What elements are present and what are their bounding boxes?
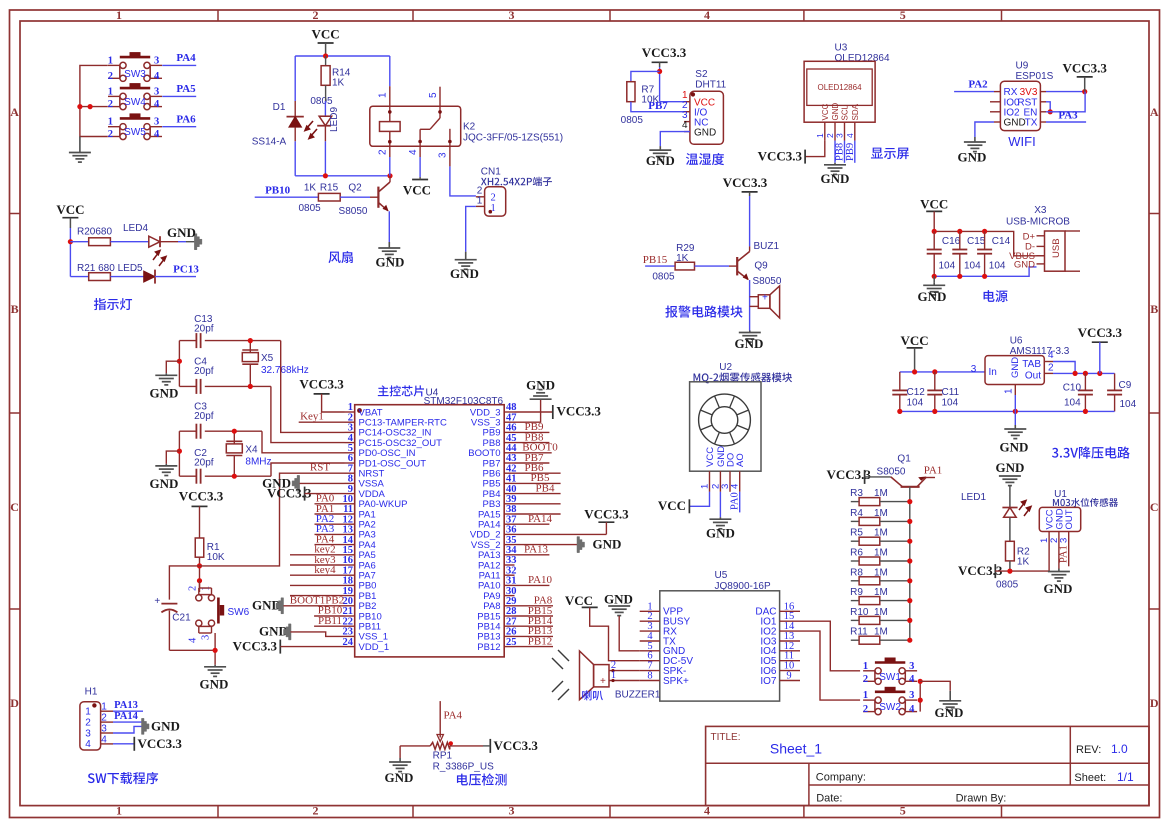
svg-text:R20680: R20680 [77, 227, 112, 238]
U5 right pins [780, 610, 800, 612]
ground arrow H1 [142, 718, 150, 734]
wire R15 to Q2 base [340, 196, 370, 198]
wire pin26 PB13 [515, 635, 554, 637]
transistor Q9 S8050 [736, 257, 738, 275]
ground SW1 SW2 [949, 691, 951, 701]
svg-text:1/1: 1/1 [1117, 770, 1134, 784]
wire PA2 to RX [954, 91, 994, 93]
svg-text:U5: U5 [715, 570, 728, 581]
svg-text:GND: GND [918, 289, 947, 304]
wire VCC3.3 to Q1 base [865, 476, 891, 478]
resistor R29 1K [675, 262, 694, 270]
svg-text:1M: 1M [874, 627, 888, 638]
svg-text:VCC3.3: VCC3.3 [233, 638, 278, 653]
svg-text:OLED12864: OLED12864 [817, 83, 862, 92]
svg-text:104: 104 [939, 260, 956, 271]
ground DHT11 [659, 146, 661, 150]
wire GND to pin5 [619, 616, 640, 651]
svg-text:2: 2 [108, 99, 113, 110]
svg-text:PB4: PB4 [536, 482, 555, 494]
svg-text:1M: 1M [874, 488, 888, 499]
svg-text:4: 4 [845, 133, 855, 138]
resistor R20 680 [89, 238, 111, 246]
svg-text:R11: R11 [850, 627, 868, 638]
svg-text:REV:: REV: [1076, 744, 1101, 756]
wire X4 top to MCU pin5 [262, 431, 345, 453]
svg-text:OLED12864: OLED12864 [835, 53, 890, 64]
switch SW1 [875, 668, 881, 674]
resistor R1 10K [195, 538, 204, 557]
svg-text:2: 2 [378, 149, 389, 155]
resistor R10 1M [851, 619, 859, 621]
speaker terminals [609, 670, 640, 672]
wire Q9 collector up [749, 246, 751, 251]
svg-text:20pf: 20pf [194, 324, 214, 335]
svg-text:TITLE:: TITLE: [711, 732, 741, 743]
svg-text:1: 1 [863, 661, 868, 672]
svg-text:U2: U2 [719, 362, 732, 373]
svg-text:R3: R3 [850, 488, 863, 499]
wire SW4 pin2 to rail [80, 106, 108, 108]
switch SW4 [120, 93, 126, 99]
wire PA1 pin11 [315, 513, 345, 515]
svg-text:20pf: 20pf [194, 411, 214, 422]
label SW download chinese [88, 772, 158, 784]
svg-text:GND: GND [821, 171, 850, 186]
ground X5 [166, 361, 179, 373]
wire pin27 PB14 [515, 625, 554, 627]
label display chinese [871, 148, 909, 160]
LED LED5 [144, 271, 155, 282]
svg-text:R8: R8 [850, 567, 863, 578]
sound wave lines [552, 650, 569, 700]
svg-text:3: 3 [509, 8, 515, 22]
svg-text:2: 2 [1048, 362, 1054, 373]
svg-text:In: In [989, 367, 997, 378]
wire VDDA pin9 [305, 493, 345, 495]
relay pin4 stub [419, 146, 421, 157]
svg-text:4: 4 [909, 704, 915, 715]
svg-text:Sheet_1: Sheet_1 [770, 741, 822, 757]
svg-text:AO: AO [735, 453, 746, 467]
wire pin29 PA8 [515, 605, 554, 607]
svg-text:5: 5 [428, 92, 439, 98]
wire PB1 pin19 [290, 595, 345, 597]
power VCC3.3 pin48 [552, 405, 554, 419]
svg-text:4: 4 [682, 120, 688, 131]
svg-text:104: 104 [964, 260, 981, 271]
wire pin46 PB9 [515, 431, 550, 433]
MCU right pins [504, 411, 514, 413]
svg-text:VCC3.3: VCC3.3 [584, 506, 629, 521]
speaker BUZ1 symbol [758, 295, 770, 309]
svg-text:SW2: SW2 [879, 702, 901, 713]
wire pin31 PA10 [515, 584, 550, 586]
svg-text:4: 4 [704, 8, 710, 22]
svg-text:4: 4 [85, 739, 91, 750]
svg-text:GND: GND [150, 476, 179, 491]
svg-text:GND: GND [935, 705, 964, 720]
svg-text:Q9: Q9 [754, 260, 768, 271]
ground mq2 [719, 517, 721, 519]
wire RST to EN [1046, 102, 1050, 112]
capacitor C12 104 [899, 372, 901, 391]
wire junction to R7 top [631, 71, 660, 81]
wire PB0 pin18 [290, 584, 345, 586]
svg-text:GND: GND [151, 718, 180, 733]
ground arrow VSS_2 [577, 537, 585, 553]
ground U1 [1058, 569, 1060, 572]
svg-text:S8050: S8050 [753, 276, 782, 287]
svg-text:4: 4 [1048, 350, 1054, 361]
switch SW5 [120, 124, 126, 130]
wire BOOT1PB2 pin20 [284, 605, 345, 607]
svg-text:VDD_1: VDD_1 [359, 642, 390, 653]
svg-text:GND: GND [646, 153, 675, 168]
wire VCC3.3 to Q9 collector [749, 196, 751, 246]
svg-text:1: 1 [611, 670, 616, 681]
wire VCC down [69, 228, 71, 277]
wire R7 bottom to pin2 [631, 102, 684, 112]
svg-text:1M: 1M [874, 548, 888, 559]
wire TAB to Out [1044, 361, 1053, 363]
svg-text:9: 9 [786, 671, 791, 682]
wire fan bottom rail [295, 175, 390, 177]
label voltage detect chinese [457, 773, 507, 785]
label speaker chinese [582, 690, 603, 700]
U6 GND pin stub [1014, 385, 1016, 396]
wire IO1 to SW1 [800, 621, 860, 671]
svg-text:X3: X3 [1034, 205, 1047, 216]
capacitor C9 104 [1114, 373, 1116, 390]
wire SW6 bottom to GND [199, 632, 212, 634]
svg-text:S8050: S8050 [339, 206, 368, 217]
wire Q9 emitter to speaker [749, 280, 751, 331]
wire VSSA pin8 [300, 482, 345, 484]
svg-text:3: 3 [154, 117, 159, 128]
svg-text:GND: GND [450, 266, 479, 281]
ESP01S pin stubs [994, 91, 1000, 93]
wire D1 to bottom rail [294, 141, 296, 176]
ground OLED [834, 163, 836, 165]
svg-text:OUT: OUT [1064, 509, 1075, 529]
svg-text:1M: 1M [874, 508, 888, 519]
wire R29 to Q9 base [695, 265, 730, 267]
wire X4 left rail [178, 431, 180, 476]
wire MQ2 pin1 to VCC [689, 492, 709, 507]
wire R20 to LED4 [110, 241, 148, 243]
svg-text:GND: GND [385, 770, 414, 785]
wire key4 pin17 [290, 574, 345, 576]
svg-text:VCC3.3: VCC3.3 [758, 148, 803, 163]
LED LED9 [319, 115, 332, 117]
junction on rail [77, 104, 82, 109]
label indicator chinese [94, 298, 132, 310]
svg-text:VCC3.3: VCC3.3 [557, 404, 602, 419]
svg-text:2: 2 [188, 586, 199, 591]
svg-text:H1: H1 [85, 687, 98, 698]
wire PA2 pin12 [315, 523, 345, 525]
resistor R9 1M [851, 600, 859, 602]
svg-text:VCC3.3: VCC3.3 [1062, 61, 1107, 76]
svg-text:LED4: LED4 [123, 223, 148, 234]
wire DHT11 pin4 to GND [660, 132, 690, 147]
wire pin37 PA14 [515, 523, 550, 525]
svg-text:R10: R10 [850, 607, 869, 618]
wire LED5 to PC13 [155, 276, 196, 278]
svg-text:2: 2 [101, 713, 107, 724]
ground fan Q2 [388, 242, 390, 248]
svg-text:VCC: VCC [312, 27, 340, 42]
wire X5 bottom to MCU pin4 [271, 386, 345, 442]
svg-text:1M: 1M [874, 528, 888, 539]
wire RST net to MCU pin7 [200, 473, 345, 566]
wire Q2 emitter to GND [388, 211, 390, 242]
MCU U4 body [355, 405, 505, 657]
svg-text:GND: GND [1014, 259, 1035, 270]
wire OLED pin2 to GND [834, 141, 836, 163]
svg-text:PA3: PA3 [1058, 109, 1078, 121]
svg-text:Key1: Key1 [300, 410, 324, 422]
U5 left pins [640, 610, 660, 612]
ground RP1 [399, 758, 401, 762]
wire pin39 stub [515, 503, 561, 505]
resistor R6 1M [851, 560, 859, 562]
wire PA4 pin14 [315, 544, 345, 546]
svg-text:SW1: SW1 [879, 672, 901, 683]
svg-text:+: + [762, 293, 768, 304]
svg-text:D: D [10, 696, 19, 710]
svg-text:GND: GND [200, 677, 229, 692]
svg-text:A: A [10, 105, 19, 119]
svg-text:Drawn By:: Drawn By: [956, 793, 1007, 805]
svg-text:PA0: PA0 [730, 492, 741, 510]
svg-text:1: 1 [815, 133, 825, 138]
svg-text:3: 3 [971, 364, 977, 375]
svg-text:VCC: VCC [56, 202, 84, 217]
svg-text:PA10: PA10 [528, 574, 553, 586]
wire pin40 PB4 [515, 493, 561, 495]
wire pin45 PB8 [515, 442, 550, 444]
wire OLED pin3 net PB8 [844, 141, 846, 163]
svg-text:4: 4 [730, 484, 741, 489]
wire GND wifi [975, 122, 994, 137]
wire regulator input rail [900, 371, 985, 373]
ground SW6 [214, 665, 216, 667]
wire PA0 pin10 [315, 503, 345, 505]
wire X4 bottom to MCU pin6 [271, 463, 345, 476]
capacitor C15 104 [959, 231, 961, 249]
svg-text:0805: 0805 [652, 272, 675, 283]
svg-text:1M: 1M [874, 607, 888, 618]
svg-text:PA1: PA1 [924, 465, 943, 477]
svg-text:Q2: Q2 [348, 182, 362, 193]
MQ-2 sensor circle [699, 394, 751, 446]
svg-text:BUZZER1: BUZZER1 [615, 690, 661, 701]
svg-text:8: 8 [647, 671, 652, 682]
ground alarm [749, 331, 751, 333]
svg-text:SPK+: SPK+ [663, 676, 689, 687]
svg-text:Sheet:: Sheet: [1074, 772, 1106, 784]
svg-text:VCC: VCC [705, 447, 716, 467]
svg-text:U9: U9 [1016, 61, 1029, 72]
svg-text:R6: R6 [850, 548, 863, 559]
power VCC3.3 H1 [133, 737, 135, 751]
wire LED4 to GND arrow [160, 241, 178, 243]
ground VSS_3 [540, 398, 542, 400]
wire rail to ground symbol [1014, 411, 1016, 425]
svg-text:C16: C16 [942, 236, 961, 247]
svg-text:C10: C10 [1063, 383, 1082, 394]
wire H1 pin3 to GND [113, 726, 142, 733]
U1 pin stubs [1048, 532, 1050, 547]
svg-text:PA5: PA5 [176, 83, 196, 95]
svg-text:104: 104 [907, 397, 924, 408]
ground wifi [974, 137, 976, 142]
svg-text:2: 2 [491, 193, 496, 204]
svg-text:SW5: SW5 [124, 127, 146, 138]
svg-text:Out: Out [1025, 371, 1041, 382]
wire OLED pin1 to VCC3.3 [805, 141, 825, 157]
svg-text:2: 2 [863, 704, 868, 715]
svg-text:D1: D1 [273, 102, 286, 113]
power VCC under relay pin4 [412, 179, 428, 181]
svg-text:GND: GND [526, 377, 555, 392]
svg-text:GND: GND [376, 255, 405, 270]
svg-text:3: 3 [438, 152, 449, 158]
svg-text:3: 3 [85, 728, 91, 739]
svg-text:Date:: Date: [816, 793, 842, 805]
resistor R14 1K [325, 56, 327, 66]
svg-text:4: 4 [154, 129, 160, 140]
wire VSS_3 pin47 to GND [515, 399, 541, 422]
wire SW right rail to GND [919, 681, 921, 711]
svg-text:C15: C15 [967, 236, 986, 247]
wire MQ2 pin2 to GND [719, 492, 721, 517]
svg-text:GND: GND [831, 103, 840, 121]
resistor R5 1M [851, 540, 859, 542]
svg-text:4: 4 [188, 637, 199, 643]
wire VCC3.3 to R1 [199, 506, 201, 538]
wire pin42 PB6 [515, 472, 561, 474]
wire H1 pin1 net PA13 [113, 710, 143, 712]
wire Q1 emitter net PA1 [926, 477, 936, 479]
svg-text:VCC: VCC [920, 197, 948, 212]
svg-text:PA2: PA2 [968, 79, 988, 91]
wire VDD_2 pin36 to VCC3.3 [515, 533, 607, 535]
svg-text:GND: GND [958, 150, 987, 165]
resistor R7 10K [627, 82, 635, 102]
wire Q2 collector [389, 176, 391, 182]
wire key2 pin15 [290, 554, 345, 556]
wire PB10 pin21 [314, 615, 344, 617]
svg-text:SW4: SW4 [124, 97, 146, 108]
svg-text:1.0: 1.0 [1111, 742, 1128, 756]
light arrows LED1 [1019, 501, 1031, 517]
svg-text:1: 1 [116, 8, 122, 22]
svg-text:PA13: PA13 [114, 700, 138, 711]
svg-text:3: 3 [154, 86, 159, 97]
svg-text:3: 3 [201, 635, 212, 640]
svg-text:2: 2 [313, 8, 319, 22]
svg-text:3: 3 [909, 661, 914, 672]
svg-text:R9: R9 [850, 587, 863, 598]
svg-text:20pf: 20pf [194, 457, 214, 468]
svg-text:3: 3 [509, 804, 515, 818]
resistor R3 1M [851, 501, 859, 503]
wire RP1 left to GND [399, 746, 401, 758]
svg-text:0805: 0805 [621, 115, 644, 126]
label fan chinese [328, 251, 352, 263]
wire pin43 PB7 [515, 462, 550, 464]
svg-text:VCC: VCC [821, 103, 830, 120]
wire VCC3.3 to pin1 [322, 394, 345, 412]
potentiometer RP1 R_3386P_US [400, 745, 430, 747]
svg-text:5: 5 [900, 8, 906, 22]
svg-text:D: D [1150, 696, 1159, 710]
svg-text:PB9: PB9 [845, 143, 856, 161]
svg-text:20pf: 20pf [194, 366, 214, 377]
svg-text:BUZ1: BUZ1 [754, 241, 780, 252]
svg-text:2: 2 [825, 133, 835, 138]
MCU left pins [345, 411, 355, 413]
svg-text:1K: 1K [332, 78, 345, 89]
label 3.3V buck chinese [1052, 447, 1130, 459]
wire VCC3.3 to pin1 [660, 101, 684, 103]
wire relay pin2 to rail [389, 157, 391, 176]
light arrows between D1 and LED9 [305, 121, 317, 139]
svg-text:4: 4 [408, 149, 419, 155]
svg-text:U1: U1 [1054, 489, 1067, 500]
wire pin34 PA13 [515, 554, 550, 556]
svg-text:C14: C14 [992, 236, 1011, 247]
switch SW2 [875, 697, 881, 703]
wire key3 pin16 [290, 564, 345, 566]
svg-text:PA13: PA13 [524, 544, 549, 556]
svg-text:VCC3.3: VCC3.3 [494, 738, 539, 753]
ground arrow LED4 [194, 234, 202, 250]
wire relay pin4 to VCC [419, 157, 421, 177]
svg-text:K2: K2 [463, 122, 476, 133]
capacitor C10 104 [1084, 373, 1086, 390]
wire PB10 to R15 [255, 196, 319, 198]
svg-text:TX: TX [1025, 118, 1038, 129]
svg-text:104: 104 [989, 260, 1006, 271]
wire to R20 [70, 241, 88, 243]
wire PA5 net [162, 95, 196, 97]
wire regulator output rail [1044, 372, 1053, 374]
wire Key1 pin2 [299, 421, 345, 423]
relay pin3 stub [449, 146, 451, 166]
svg-text:GND: GND [167, 225, 196, 240]
wire SW common left rail [80, 65, 108, 136]
svg-text:VCC3.3: VCC3.3 [138, 736, 183, 751]
wire PB11 pin22 [314, 625, 344, 627]
svg-text:B: B [1150, 302, 1158, 316]
svg-text:LED9: LED9 [329, 107, 340, 132]
svg-text:USB: USB [1051, 238, 1062, 258]
svg-text:3: 3 [1059, 538, 1070, 543]
svg-text:2: 2 [313, 804, 319, 818]
svg-text:R5: R5 [850, 528, 863, 539]
wire OLED pin4 net PB9 [854, 141, 856, 163]
svg-text:2: 2 [108, 71, 113, 82]
svg-text:1: 1 [1004, 388, 1015, 394]
svg-text:TAB: TAB [1022, 359, 1041, 370]
svg-text:USB-MICROB: USB-MICROB [1006, 217, 1070, 228]
svg-text:2: 2 [863, 674, 868, 685]
wire VSS_2 pin35 to GND arrow [515, 544, 578, 546]
